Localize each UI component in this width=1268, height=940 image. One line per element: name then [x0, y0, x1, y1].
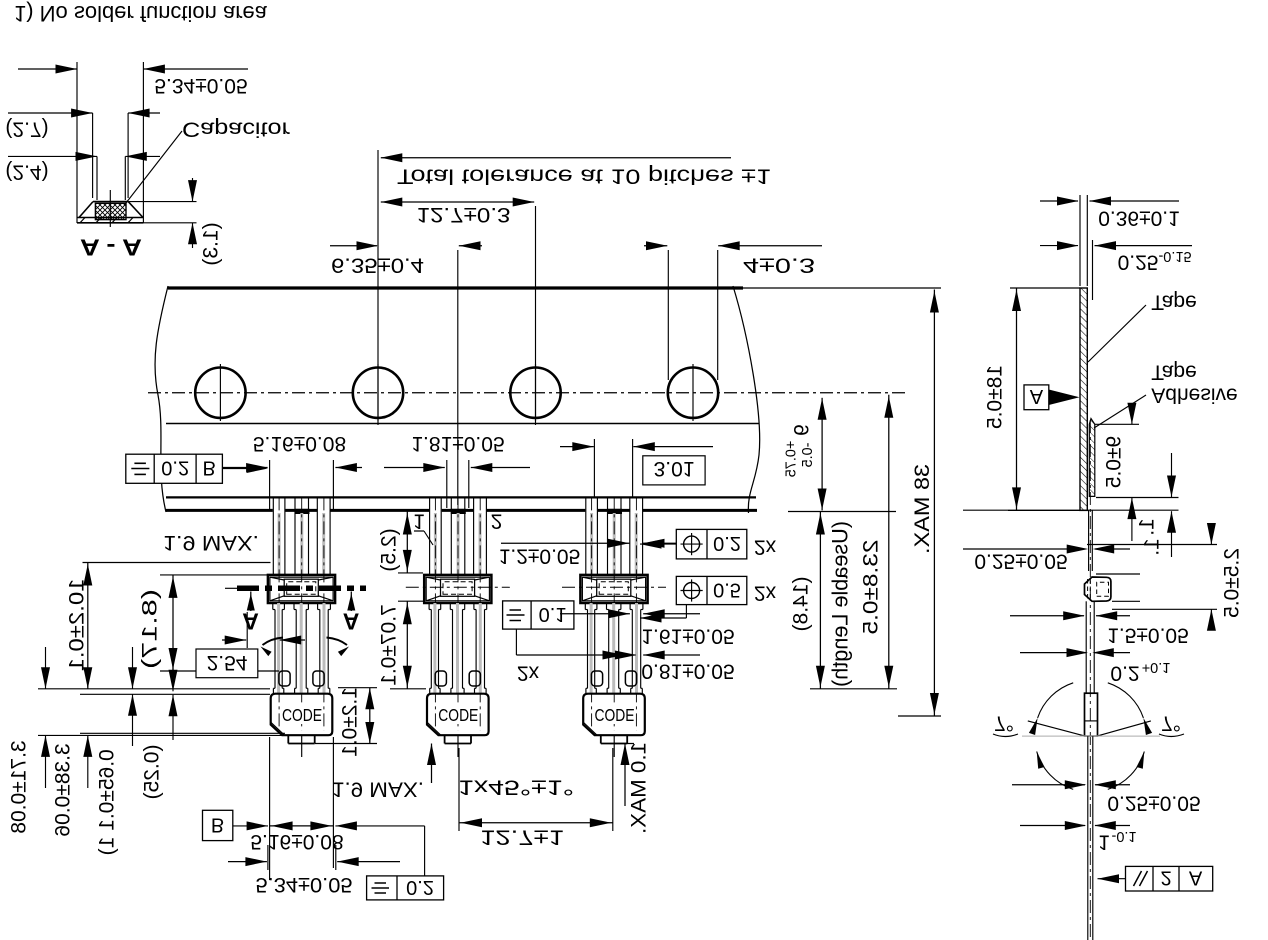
dim 2.5±0.5 right: [1087, 544, 1217, 546]
svg-text:(2.5): (2.5): [378, 528, 401, 571]
CODE marking: [280, 706, 323, 725]
svg-text:0.36±0.1: 0.36±0.1: [1098, 206, 1180, 229]
center line below body: [457, 735, 459, 757]
lead centerlines through crimp: [278, 497, 280, 730]
dim (2.4) section: [96, 156, 98, 200]
frame symmetry 0.1 with 2x: [503, 601, 574, 629]
dim total tolerance at 10 pitches: [377, 150, 379, 425]
dim 7.07±0.1 comp2: [398, 600, 423, 602]
dim (1.3) section right: [128, 201, 196, 203]
leads below crimp: [277, 603, 280, 694]
body top extension line: [80, 693, 270, 695]
lead below bend: [1087, 736, 1089, 940]
stand-off pads: [435, 671, 446, 686]
svg-text:0.25±0.05: 0.25±0.05: [974, 549, 1067, 572]
svg-text:2.5±0.5: 2.5±0.5: [1221, 548, 1244, 618]
svg-text:0.2: 0.2: [713, 532, 741, 554]
dim 0.65±0.1 1): [132, 647, 134, 689]
body bottom extension line: [38, 734, 285, 736]
svg-text:Capacitor: Capacitor: [182, 117, 290, 140]
svg-text:7°: 7°: [1161, 711, 1181, 734]
dim 0.25±0.05 lower: [1012, 784, 1085, 786]
frame position 0.2 2x: [676, 529, 747, 559]
svg-text:0.81±0.05: 0.81±0.05: [641, 659, 734, 682]
crimp side trapezoids: [270, 577, 284, 580]
center line below body: [301, 735, 303, 757]
svg-text:0.65±0.1: 0.65±0.1: [96, 749, 119, 831]
svg-text:12.7±1: 12.7±1: [480, 825, 564, 848]
svg-text:1) No solder function area: 1) No solder function area: [14, 1, 268, 26]
tape right break line: [733, 286, 760, 513]
svg-text:(8.17): (8.17): [139, 589, 162, 669]
svg-text:(1.3): (1.3): [200, 222, 223, 265]
svg-text:(0.25): (0.25): [141, 745, 164, 800]
svg-text:1.0 MAX.: 1.0 MAX.: [628, 742, 651, 834]
svg-text:1x45°±1°: 1x45°±1°: [458, 775, 574, 798]
svg-text:(2.7): (2.7): [5, 117, 48, 140]
svg-text:1.: 1.: [1141, 538, 1164, 556]
dim 5.16±0.08 bottom: [269, 737, 271, 880]
svg-text:2.54: 2.54: [207, 651, 248, 674]
svg-text:7.07±0.1: 7.07±0.1: [378, 604, 401, 686]
side view adhesive tape strip: [1089, 419, 1095, 497]
svg-text:(2.4): (2.4): [5, 160, 48, 183]
svg-text:A: A: [1189, 867, 1203, 889]
svg-text:CODE: CODE: [595, 705, 635, 725]
svg-text:1.2±0.1: 1.2±0.1: [339, 687, 362, 757]
crimp side trapezoids: [426, 577, 440, 580]
svg-text:6.35±0.4: 6.35±0.4: [331, 253, 424, 276]
tape bottom thick edge: [166, 509, 757, 512]
svg-text:1): 1): [96, 837, 119, 856]
tape left break line: [155, 286, 168, 512]
lead below crimp wide pair: [1085, 601, 1087, 694]
dim 9 +0.75/-0.5 hole center to tape edge: [821, 398, 823, 511]
svg-text:18±0.5: 18±0.5: [984, 365, 1007, 429]
svg-text:1.61±0.05: 1.61±0.05: [641, 624, 734, 647]
crimp retainer box: [424, 575, 491, 603]
svg-text:1.: 1.: [1136, 518, 1159, 536]
svg-text:9: 9: [791, 424, 814, 436]
svg-text:0.2: 0.2: [1110, 661, 1139, 684]
leads below crimp: [433, 603, 436, 694]
dim 0.81±0.05 comp3: [608, 654, 636, 656]
bend arcs: [1038, 683, 1074, 718]
datum B box bottom: [203, 810, 233, 840]
stand-off pads: [591, 671, 602, 686]
frame symmetry 0.2 bottom: [367, 876, 444, 900]
crimp retainer box: [268, 575, 335, 603]
dim 12.7±0.3 hole pitch: [535, 206, 537, 425]
dim 4±0.3 hole diameter: [667, 250, 669, 380]
svg-text:B: B: [203, 456, 216, 478]
svg-text:2x: 2x: [517, 661, 540, 684]
dim 0.36±0.1 tape thickness: [1079, 195, 1081, 286]
sprocket hole 1: [195, 368, 245, 418]
svg-text:Total tolerance at 10 pitches: Total tolerance at 10 pitches ±1: [397, 164, 771, 187]
side crimp extensions: [1096, 573, 1140, 575]
dim 0.2 +0.1 lead thickness: [1020, 652, 1086, 654]
dim 12.7±1 pitch bottom: [458, 748, 460, 831]
svg-text:(Useable Length): (Useable Length): [827, 521, 852, 687]
svg-text:5.34±0.05: 5.34±0.05: [256, 873, 353, 896]
center line below body: [613, 735, 615, 757]
svg-text:3.71±0.08: 3.71±0.08: [8, 740, 31, 833]
svg-text:7°: 7°: [994, 711, 1014, 734]
svg-text:+0.75: +0.75: [784, 441, 800, 478]
dim 1. adhesive to tape edge: [1171, 453, 1173, 497]
svg-text:2: 2: [491, 509, 503, 532]
dim (14.8): [819, 512, 821, 689]
dim 38 MAX right: [743, 287, 941, 289]
chamfer extension line: [80, 732, 285, 734]
capacitor hatched in pocket: [95, 203, 126, 219]
crimp centerline dash-dot: [562, 586, 666, 588]
svg-text:0.5: 0.5: [713, 578, 741, 600]
lead bent segment rect: [1085, 693, 1098, 736]
svg-text:A: A: [242, 609, 259, 635]
dim 3.01 boxed: [593, 439, 595, 497]
dim 1 -0.1 lower: [1020, 825, 1085, 827]
lead centerlines through crimp: [591, 497, 593, 730]
svg-text:1: 1: [1098, 830, 1110, 853]
svg-text:2: 2: [1160, 867, 1171, 889]
svg-text:5.16±0.08: 5.16±0.08: [250, 830, 343, 853]
dim 1.2±0.1 comp1 right: [338, 687, 377, 689]
section cut line A-A through comp1 crimp: [237, 586, 366, 592]
lead centerlines through crimp: [434, 497, 436, 730]
extension line tape bottom right: [788, 511, 896, 513]
svg-text:Tape: Tape: [1151, 290, 1197, 313]
svg-text:Tape: Tape: [1151, 360, 1197, 383]
dim (8.17) left: [160, 574, 268, 576]
svg-text:4±0.3: 4±0.3: [743, 253, 815, 276]
sprocket hole 4: [668, 368, 718, 418]
svg-text:1.2±0.05: 1.2±0.05: [499, 544, 581, 567]
svg-text:Adhesive: Adhesive: [1151, 383, 1237, 406]
component at x=301.5: leads above crimp: [273, 508, 286, 512]
svg-text:A: A: [343, 609, 360, 635]
dim 18±0.5 tape width: [1010, 287, 1080, 289]
crimp centerline dash-dot: [406, 586, 510, 588]
svg-text:23.8±0.5: 23.8±0.5: [860, 540, 883, 635]
sprocket hole centerline: [148, 392, 906, 394]
dim 5.34±0.05 top of section: [18, 68, 77, 70]
svg-text:3.01: 3.01: [654, 457, 695, 480]
dim (2.7) section: [92, 113, 94, 198]
frame symmetry 0.2 datum B at tape left: [126, 454, 223, 483]
bend arc right comp1: [327, 638, 348, 646]
body chamfer inner line: [427, 722, 441, 735]
svg-text:-0.5: -0.5: [800, 443, 816, 468]
side view lead below tape: [1089, 420, 1091, 940]
capacitor label + leader: [124, 131, 182, 206]
dim 1.5±0.05 lead width: [1010, 615, 1084, 617]
svg-text:CODE: CODE: [282, 705, 322, 725]
dim 10.2±0.1 left: [87, 563, 89, 689]
sprocket hole 3: [510, 368, 560, 418]
sprocket hole 2: [353, 368, 403, 418]
svg-text:A - A: A - A: [80, 235, 142, 261]
svg-text:5.16±0.08: 5.16±0.08: [253, 432, 346, 455]
dim (0.25): [172, 655, 174, 691]
bend pivot lines ±7°: [1028, 721, 1085, 736]
section arrow right: [350, 592, 352, 612]
pads top extension line: [160, 670, 279, 672]
dim 5.16±0.08 comp1 top: [269, 460, 271, 510]
svg-text:1.9 MAX.: 1.9 MAX.: [163, 531, 259, 554]
component at x=457.8: leads above crimp: [429, 508, 442, 512]
svg-text:(14.8): (14.8): [790, 577, 813, 632]
stand-off pads: [279, 671, 290, 686]
svg-text:1: 1: [413, 509, 425, 532]
svg-text:38 MAX.: 38 MAX.: [911, 464, 934, 554]
dim 0.25 -0.15 total thickness: [1092, 240, 1094, 300]
svg-text:0.2: 0.2: [161, 456, 189, 478]
svg-text:10.2±0.1: 10.2±0.1: [66, 579, 89, 672]
svg-text:-0.1: -0.1: [1112, 828, 1137, 844]
dim 3.38±0.06: [87, 694, 89, 735]
svg-text:-0.15: -0.15: [1158, 248, 1191, 264]
svg-text:CODE: CODE: [438, 705, 478, 725]
side tape bottom extension: [963, 509, 1179, 511]
frame parallelism 2 A: [1126, 866, 1213, 891]
dim 2.54 boxed: [246, 612, 248, 648]
dim 9±0.5 adhesive width: [1095, 423, 1139, 425]
section arrow left: [250, 592, 252, 612]
dim 1.61±0.05 comp3: [560, 613, 630, 615]
component body: [583, 694, 645, 736]
svg-text:0.2: 0.2: [406, 876, 434, 898]
svg-text:5.34±0.05: 5.34±0.05: [154, 74, 247, 97]
dim 23.8±0.5 useable length: [810, 688, 897, 690]
frame position 0.5 2x: [676, 576, 747, 604]
side view tape hatched strip: [1080, 288, 1087, 510]
datum flag A: [1024, 385, 1049, 410]
dim 0.25±0.05 upper lead thickness: [963, 548, 1080, 550]
svg-text:12.7±0.3: 12.7±0.3: [417, 203, 511, 226]
leads below crimp: [590, 603, 593, 694]
body chamfer inner line: [583, 722, 597, 735]
component body: [271, 694, 333, 736]
dim 5.34±0.05 bottom: [228, 861, 267, 863]
body bottom tab: [601, 743, 627, 745]
foot top extension line: [38, 688, 270, 690]
body bottom tab: [445, 743, 471, 745]
svg-text:+0.1: +0.1: [1142, 659, 1171, 675]
body bottom tab: [288, 743, 314, 745]
svg-text:3.38±0.06: 3.38±0.06: [52, 743, 75, 836]
svg-text:1.5±0.05: 1.5±0.05: [1107, 623, 1189, 646]
tape inner line: [166, 423, 759, 425]
svg-text:B: B: [211, 813, 224, 835]
svg-text:1.9 MAX.: 1.9 MAX.: [332, 777, 424, 800]
component at x=614.0: leads above crimp: [585, 508, 598, 512]
side view crimp profile: [1085, 577, 1111, 601]
crimp side trapezoids: [582, 577, 596, 580]
crimp retainer box: [580, 575, 647, 603]
dim 3.71±0.08: [45, 647, 47, 689]
svg-text:0.25: 0.25: [1118, 250, 1159, 273]
dim 1.2±0.05 comp3 right lead: [501, 542, 629, 544]
dim (2.5) comp2: [398, 572, 423, 574]
dim 1.9 MAX comp2 bottom: [431, 744, 433, 784]
component body: [427, 694, 489, 736]
section A-A tape bottom hatch strip: [80, 218, 85, 223]
bend arc left comp1: [263, 638, 284, 646]
tape adhesive edge line: [166, 496, 756, 498]
section A-A pocket outline: [76, 62, 78, 223]
svg-text:9±0.5: 9±0.5: [1103, 436, 1126, 488]
dim 1.81±0.05 comp2 top: [446, 460, 448, 508]
body chamfer inner line: [271, 722, 285, 735]
svg-text:1.81±0.05: 1.81±0.05: [411, 432, 504, 455]
svg-text:A: A: [1030, 385, 1044, 407]
CODE marking: [436, 706, 479, 725]
svg-text:2x: 2x: [754, 535, 777, 558]
svg-text:0.25±0.05: 0.25±0.05: [1107, 791, 1200, 814]
CODE marking: [593, 706, 636, 725]
tape top edge: [168, 286, 743, 289]
dim 6.35±0.4 hole to component: [457, 250, 459, 505]
svg-text:2x: 2x: [754, 581, 777, 604]
dim 1.0 MAX comp3 tab: [610, 743, 634, 745]
